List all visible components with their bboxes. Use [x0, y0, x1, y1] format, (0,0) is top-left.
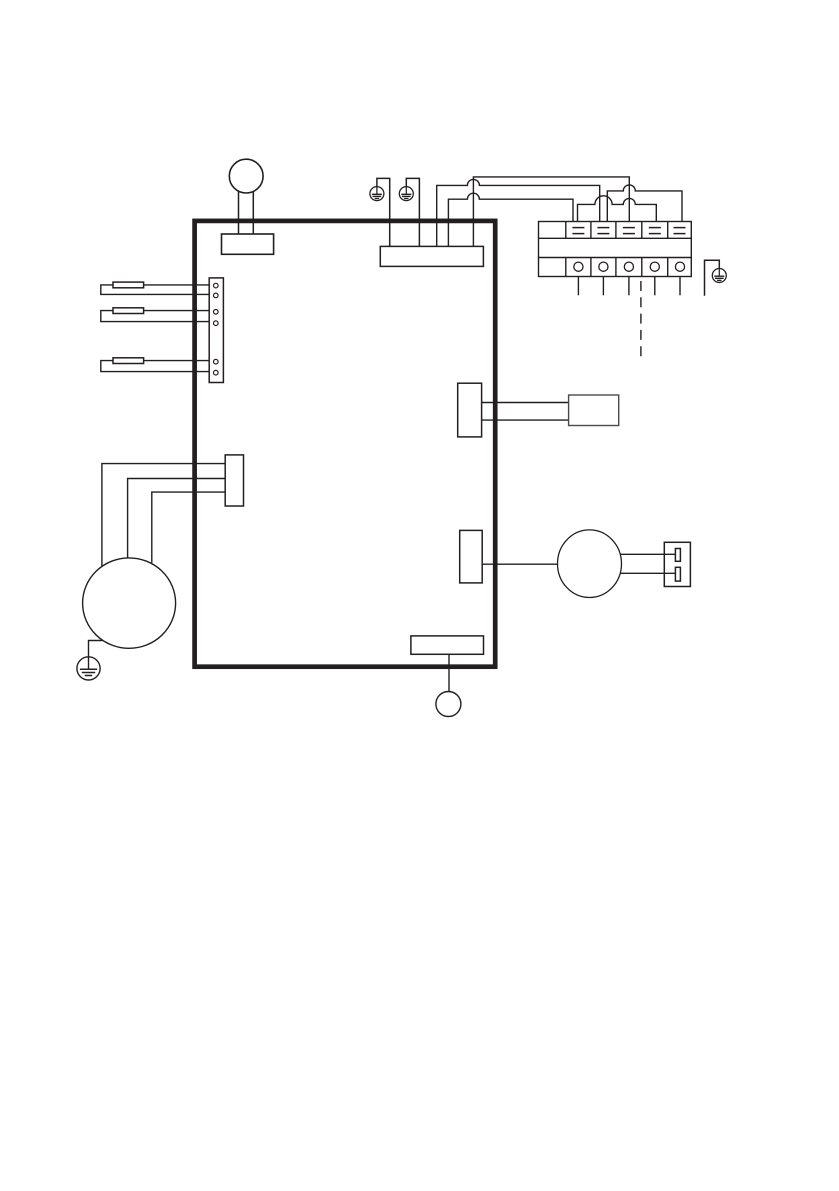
fan motor wire 3 [152, 492, 225, 563]
terminal screw marks [572, 228, 685, 234]
bottom sensor block [411, 636, 484, 654]
ground G4 [77, 657, 100, 680]
terminal block row lines [539, 238, 692, 257]
sensor S3 body [113, 358, 144, 364]
ground G2 [399, 187, 413, 201]
jumper wire terminal 2 to terminal 5 [607, 185, 682, 222]
pump plug slot 1 [675, 549, 680, 562]
wire board to terminal 2 (hops over) [437, 179, 600, 246]
terminal block column separators [566, 222, 668, 277]
bottom sensor bulb circle [436, 692, 461, 717]
ground G4 wire [89, 641, 103, 657]
ground G1 [370, 187, 384, 201]
board top terminal strip [380, 246, 483, 266]
terminal pin wires [578, 277, 680, 296]
sensor S3 lead wires [101, 361, 209, 372]
jumper wire terminal 1 to terminal 4 [578, 196, 657, 222]
knob stem wires [239, 191, 254, 234]
mid-right module box [569, 395, 619, 426]
pump plug outline [664, 542, 690, 586]
sensor S2 body [113, 308, 144, 314]
wire board to terminal 3 [473, 177, 629, 247]
bottom-left connector block [225, 455, 243, 506]
ground G3 [712, 269, 726, 283]
control board outline [195, 221, 496, 667]
dashed stub line [640, 281, 642, 359]
sensor S2 lead wires [101, 311, 209, 322]
terminal ring circles [574, 262, 685, 271]
ground G1 hook wire [377, 178, 390, 246]
terminal block outline [539, 222, 692, 277]
pump plug slot 2 [675, 567, 680, 581]
ground G2 hook wire [406, 178, 419, 246]
lower-right wire to motor [482, 563, 557, 565]
mid-right module wires [482, 403, 569, 421]
lower-right connector block [460, 530, 483, 583]
fan motor circle [83, 558, 176, 648]
ground G3 hook wire [705, 260, 720, 295]
pump motor circle [558, 530, 622, 598]
wire board to terminal 1 (hops over) [448, 193, 573, 246]
pump motor wires [620, 554, 676, 573]
sensor S1 body [113, 282, 144, 288]
fan motor wire 2 [128, 479, 226, 558]
left connector strip [209, 278, 223, 383]
bottom sensor wire [448, 654, 450, 691]
fan motor wire 1 [102, 464, 225, 567]
mid-right connector block [458, 383, 482, 437]
knob circle [229, 159, 263, 193]
left connector pin circles [214, 283, 219, 375]
sensor S1 lead wires [101, 285, 209, 295]
knob connector block [222, 234, 274, 254]
